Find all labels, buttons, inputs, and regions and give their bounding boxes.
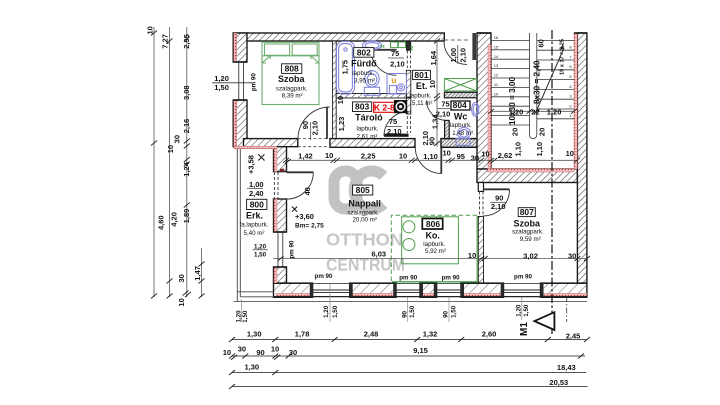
svg-text:1,20: 1,20 <box>214 74 229 83</box>
left chain line 4 <box>201 248 203 297</box>
svg-text:1,20: 1,20 <box>509 107 524 116</box>
807/Ko divider wall upper stub <box>478 183 483 192</box>
svg-text:u: u <box>391 75 396 85</box>
svg-text:20,00 m²: 20,00 m² <box>352 216 376 223</box>
stairwell bottom wall <box>477 169 577 183</box>
svg-text:75: 75 <box>441 99 449 108</box>
svg-text:30: 30 <box>568 252 576 261</box>
svg-text:1,64: 1,64 <box>429 50 438 65</box>
svg-text:2,45: 2,45 <box>566 332 581 341</box>
M1 section line <box>519 30 567 336</box>
svg-text:1,00: 1,00 <box>449 48 458 63</box>
svg-text:1,20: 1,20 <box>515 304 522 317</box>
terrace edge line <box>234 300 587 302</box>
DOOR DIM LABELS <box>247 45 506 211</box>
svg-text:Wc: Wc <box>454 111 468 121</box>
red strip stairwell bottom <box>488 169 575 172</box>
svg-text:Bm= 2,75: Bm= 2,75 <box>295 223 324 230</box>
svg-text:10: 10 <box>146 26 155 34</box>
svg-text:14: 14 <box>494 54 499 59</box>
svg-text:12: 12 <box>494 73 499 78</box>
BOTTOM WINDOW SIZE PAIRS <box>235 283 530 323</box>
window2 glass <box>396 290 420 292</box>
svg-text:1,32: 1,32 <box>423 329 438 338</box>
wc toilet <box>458 127 471 138</box>
INTERIOR DIM CHAIN y160 <box>283 149 580 164</box>
room 801 label <box>409 70 432 107</box>
door tároló (leaf + arc + dashes) <box>384 134 409 137</box>
red strip balcony wall upper <box>274 149 277 172</box>
red strip left wall upper <box>234 33 237 62</box>
svg-text:15: 15 <box>494 44 499 49</box>
svg-text:95: 95 <box>457 152 465 161</box>
svg-text:lapburk.: lapburk. <box>356 125 378 132</box>
red strip stairwell left wall <box>488 45 491 170</box>
svg-text:1,50: 1,50 <box>409 305 416 318</box>
door fürdő (leaf + arc + dashes) <box>366 49 397 51</box>
bottom exterior wall segments <box>274 283 313 297</box>
svg-text:90: 90 <box>443 310 450 317</box>
wall 802/803 divider <box>336 94 406 99</box>
svg-text:2,61 m²: 2,61 m² <box>357 134 378 141</box>
STAIR LABELS <box>488 35 577 157</box>
bottom wall window lines <box>274 283 587 285</box>
svg-text:pm 90: pm 90 <box>250 73 257 91</box>
DIMENSION CHAINS LEFT <box>154 27 202 297</box>
svg-text:6,03: 6,03 <box>371 250 386 259</box>
svg-text:805: 805 <box>356 185 370 195</box>
window1 glass <box>313 290 350 292</box>
window jambs bottom wall <box>310 283 544 296</box>
svg-text:800: 800 <box>250 200 264 210</box>
svg-text:5,11 m²: 5,11 m² <box>412 100 433 107</box>
svg-text:30: 30 <box>471 153 479 162</box>
svg-text:30: 30 <box>177 274 186 282</box>
window 808 left wall <box>233 62 247 100</box>
top exterior wall <box>233 33 444 41</box>
svg-text:801: 801 <box>414 70 428 80</box>
svg-text:1,75: 1,75 <box>341 60 350 75</box>
balcony/nappali wall mid <box>274 199 287 232</box>
pair balcony <box>241 299 243 322</box>
bottom chain 2 <box>232 355 585 357</box>
svg-text:22: 22 <box>531 107 539 116</box>
svg-text:2,10: 2,10 <box>436 110 451 119</box>
door 807 (leaf + arc + dashes) <box>479 191 481 216</box>
svg-text:16: 16 <box>494 35 499 40</box>
wall 808/802 divider <box>333 41 337 139</box>
stair step numbers left flight <box>494 35 499 96</box>
svg-text:7,27: 7,27 <box>160 34 169 49</box>
svg-text:1,10: 1,10 <box>535 142 544 157</box>
svg-text:+3,58: +3,58 <box>247 155 256 174</box>
svg-text:pm 90: pm 90 <box>399 275 417 282</box>
Wc left wall <box>445 120 450 138</box>
pair window2 <box>407 297 409 322</box>
GREEN FURNITURE <box>262 42 319 104</box>
STAIRS <box>491 33 574 139</box>
pair window1 <box>329 283 331 322</box>
wall band taroló/nappali <box>330 139 415 148</box>
svg-text:1,30: 1,30 <box>247 329 262 338</box>
svg-text:1,42: 1,42 <box>298 151 313 160</box>
svg-text:4,60: 4,60 <box>157 215 166 230</box>
svg-text:2,40: 2,40 <box>249 189 264 198</box>
svg-text:19 x 17 = 3,25: 19 x 17 = 3,25 <box>560 39 566 75</box>
svg-text:808: 808 <box>285 64 299 74</box>
left chain ticks <box>151 31 157 299</box>
left exterior wall lower (below window) <box>233 100 247 147</box>
svg-text:806: 806 <box>426 219 440 229</box>
svg-text:2: 2 <box>410 46 413 52</box>
left chain line 3 <box>186 27 188 297</box>
svg-text:1,50: 1,50 <box>332 305 339 318</box>
svg-text:+3,60: +3,60 <box>295 212 314 221</box>
svg-text:18,43: 18,43 <box>557 363 576 372</box>
svg-text:10: 10 <box>177 298 186 306</box>
svg-text:2,10: 2,10 <box>491 202 506 211</box>
svg-text:40: 40 <box>303 187 312 195</box>
svg-text:10: 10 <box>481 150 489 159</box>
svg-text:1,24: 1,24 <box>182 161 191 176</box>
red strip stairwell right wall <box>574 33 577 169</box>
svg-text:2,16: 2,16 <box>182 119 191 134</box>
svg-text:3,95 m²: 3,95 m² <box>354 78 375 85</box>
svg-text:pm 90: pm 90 <box>315 273 333 280</box>
INTERIOR DIM CHAIN y258.5 <box>273 250 590 261</box>
red corner under 808 wall <box>234 146 277 149</box>
room 808 label <box>276 64 308 100</box>
svg-text:1,20: 1,20 <box>254 243 267 250</box>
kitchen dashed boundary <box>391 215 479 281</box>
wall 803 right <box>406 98 410 114</box>
svg-text:75: 75 <box>389 117 397 126</box>
svg-text:pm 90: pm 90 <box>442 275 460 282</box>
bed 808 <box>262 42 319 104</box>
svg-text:2,10: 2,10 <box>390 60 405 69</box>
svg-text:1,50: 1,50 <box>242 310 249 323</box>
svg-text:1,89: 1,89 <box>182 209 191 224</box>
stair left flight treads <box>491 40 530 125</box>
svg-text:10: 10 <box>271 345 279 354</box>
stair right flight treads <box>537 40 574 118</box>
elevation nappali <box>292 207 297 212</box>
door nappali (leaf + arc) <box>440 147 442 173</box>
svg-text:Erk.: Erk. <box>246 211 263 221</box>
balcony/nappali wall upper <box>274 147 287 172</box>
svg-text:10: 10 <box>399 151 407 160</box>
BOTTOM DIMENSION CHAINS <box>223 329 590 389</box>
balcony/nappali wall lower <box>274 267 287 283</box>
svg-text:8,39 m²: 8,39 m² <box>282 92 303 99</box>
svg-text:M1: M1 <box>519 322 530 336</box>
svg-text:2,48: 2,48 <box>364 329 379 338</box>
svg-text:5,92 m²: 5,92 m² <box>425 248 446 255</box>
stair cut caps <box>477 32 587 34</box>
wc sink <box>472 103 479 117</box>
svg-text:10: 10 <box>223 348 231 357</box>
svg-text:10: 10 <box>166 145 175 153</box>
window balcony wall <box>274 232 287 267</box>
red band bottom wall segments <box>276 293 310 296</box>
WALLS <box>233 33 587 297</box>
svg-text:2,10: 2,10 <box>458 48 467 63</box>
svg-text:20: 20 <box>538 128 547 136</box>
svg-text:3,02: 3,02 <box>523 252 538 261</box>
svg-text:Fürdő: Fürdő <box>351 58 377 68</box>
svg-text:1,20: 1,20 <box>547 107 562 116</box>
svg-text:2,25: 2,25 <box>361 152 376 161</box>
room 806 label <box>422 219 446 256</box>
svg-text:2,95: 2,95 <box>182 34 191 49</box>
room 803 label + K 2-8 <box>353 102 396 141</box>
wall band under Wc / Et <box>441 139 479 148</box>
balcony window dimension labels <box>253 240 296 258</box>
svg-text:9,59 m²: 9,59 m² <box>520 236 541 243</box>
svg-text:9,15: 9,15 <box>413 346 428 355</box>
bottom chain 1 <box>232 339 587 341</box>
svg-text:szalagpark.: szalagpark. <box>512 229 544 236</box>
svg-text:1,50: 1,50 <box>254 251 267 258</box>
svg-text:10: 10 <box>566 149 574 158</box>
M1 triangle <box>534 312 554 330</box>
svg-text:Et.: Et. <box>416 81 428 91</box>
green dryer symbols fürdő <box>391 42 398 48</box>
svg-text:10: 10 <box>336 96 345 104</box>
svg-text:lapburk.: lapburk. <box>423 241 445 248</box>
svg-text:10: 10 <box>325 151 333 160</box>
door Wc (arc) <box>427 100 447 120</box>
807/Ko divider wall lower <box>478 217 483 284</box>
svg-text:10: 10 <box>494 91 499 96</box>
door 808 (opening dashes + leaf + arc) <box>298 138 330 140</box>
bathtub <box>337 42 355 95</box>
stair width dim 1,20/22/1,20 <box>491 110 574 112</box>
svg-text:1,10: 1,10 <box>514 142 523 157</box>
svg-text:20: 20 <box>511 128 520 136</box>
stair step numbers right flight <box>569 45 572 119</box>
svg-text:lapburk.: lapburk. <box>352 70 374 77</box>
room 804 label <box>450 100 473 137</box>
svg-text:803: 803 <box>355 102 369 112</box>
room 800 label <box>240 199 269 237</box>
svg-text:10: 10 <box>468 251 476 260</box>
svg-text:10x30 = 3,00: 10x30 = 3,00 <box>508 77 517 125</box>
svg-text:sz: sz <box>380 44 386 49</box>
svg-text:fa.lapburk.: fa.lapburk. <box>240 222 269 229</box>
svg-text:2,60: 2,60 <box>482 329 497 338</box>
svg-text:2,10: 2,10 <box>310 121 319 136</box>
svg-text:13: 13 <box>494 63 499 68</box>
washing machine <box>387 74 407 95</box>
balcony door threshold <box>280 169 284 172</box>
svg-text:Szoba: Szoba <box>514 218 541 228</box>
svg-text:Ko.: Ko. <box>425 230 440 240</box>
window3 glass <box>437 290 461 292</box>
svg-text:K 2-8: K 2-8 <box>374 102 395 112</box>
red strip left wall lower <box>234 100 237 148</box>
left chain line 1 <box>153 27 155 297</box>
svg-text:90: 90 <box>401 310 408 317</box>
WATERMARK <box>326 171 405 275</box>
svg-text:Szoba: Szoba <box>278 74 305 84</box>
svg-text:5,40 m²: 5,40 m² <box>244 230 265 237</box>
svg-text:20,53: 20,53 <box>549 378 568 387</box>
svg-text:1,10: 1,10 <box>423 152 438 161</box>
entry door reveal jamb <box>472 33 476 60</box>
svg-text:Tároló: Tároló <box>355 113 383 123</box>
left chain line 2 <box>169 27 171 297</box>
Wc top wall <box>444 92 478 98</box>
wall 802 right upper stub <box>406 41 410 50</box>
wall 802 right lower <box>406 70 410 97</box>
svg-text:10: 10 <box>443 149 451 158</box>
svg-text:30: 30 <box>238 345 246 354</box>
RED ACCENTS <box>234 33 587 296</box>
svg-text:807: 807 <box>520 207 534 217</box>
watermark OC monogram <box>334 171 384 209</box>
svg-text:30: 30 <box>289 348 297 357</box>
fürdő sink <box>362 41 381 50</box>
svg-text:4,20: 4,20 <box>169 212 178 227</box>
808 window dimension labels <box>212 73 257 93</box>
svg-text:Nappali: Nappali <box>348 198 381 208</box>
stairwell/807 right exterior wall <box>577 33 587 283</box>
svg-text:804: 804 <box>453 100 467 110</box>
balcony railing left <box>237 149 273 301</box>
svg-text:60: 60 <box>537 39 546 47</box>
svg-text:1,47: 1,47 <box>193 266 202 281</box>
svg-text:8x30 = 2,40: 8x30 = 2,40 <box>533 60 542 104</box>
stairwell left wall <box>477 33 491 169</box>
svg-text:1,30: 1,30 <box>244 362 259 371</box>
svg-text:CENTRUM: CENTRUM <box>326 255 405 275</box>
room 808 bottom wall <box>244 139 298 147</box>
fürdő toilet <box>365 71 379 87</box>
door apartment entry (dashes + arc) <box>444 39 470 41</box>
stair middle divider <box>529 33 531 135</box>
svg-text:1,20: 1,20 <box>323 305 330 318</box>
svg-text:90: 90 <box>428 137 437 145</box>
svg-text:1,50: 1,50 <box>214 83 229 92</box>
shaft symbol K 2-8 <box>394 100 407 113</box>
wardrobe X-box 801 <box>444 79 476 92</box>
ELEVATION MARKS <box>247 154 325 229</box>
svg-text:1,50: 1,50 <box>523 304 530 317</box>
WINDOWS <box>233 62 587 297</box>
FIXTURES <box>337 41 479 146</box>
room 802 label <box>351 47 377 84</box>
svg-text:1,00: 1,00 <box>249 180 264 189</box>
svg-text:lapburk.: lapburk. <box>450 122 472 129</box>
pair window4 <box>521 297 523 320</box>
svg-text:1,50: 1,50 <box>450 305 457 318</box>
BOTTOM WINDOW LABELS pm90 <box>315 273 533 282</box>
svg-text:2,62: 2,62 <box>498 151 513 160</box>
svg-text:90: 90 <box>256 348 264 357</box>
kitchen counter box <box>402 217 459 264</box>
svg-text:1,48 m²: 1,48 m² <box>452 130 473 137</box>
svg-text:1,78: 1,78 <box>295 329 310 338</box>
svg-text:pm 90: pm 90 <box>288 240 295 258</box>
left exterior wall upper (above window) <box>233 33 247 62</box>
svg-text:OTTHON: OTTHON <box>326 230 403 250</box>
svg-text:lapburk.: lapburk. <box>409 93 431 100</box>
svg-text:2,10: 2,10 <box>387 127 402 136</box>
svg-text:30: 30 <box>173 135 182 143</box>
room 805 label <box>347 185 380 223</box>
door balcony (leaf + arc + dashes) <box>273 172 275 199</box>
stair walking line arrow <box>536 48 565 113</box>
svg-text:802: 802 <box>357 47 371 57</box>
DOORS <box>274 40 509 217</box>
room 807 label <box>512 207 544 243</box>
svg-text:90: 90 <box>301 121 310 129</box>
VERTICAL DIM x437 (1,64 / 10 / 1,34) <box>428 39 440 148</box>
svg-text:75: 75 <box>391 49 399 58</box>
pair window3 <box>448 297 450 322</box>
svg-text:10: 10 <box>428 80 437 88</box>
red strip balcony wall mid <box>274 199 277 232</box>
kitchen circles <box>403 221 415 233</box>
svg-text:1,23: 1,23 <box>337 117 346 132</box>
ROOM LABELS <box>240 47 544 255</box>
svg-text:pm 90: pm 90 <box>514 274 532 281</box>
bottom chain 4 <box>232 386 588 388</box>
svg-text:3,08: 3,08 <box>182 85 191 100</box>
bottom chain 3 <box>232 372 586 374</box>
window4 glass <box>504 290 541 292</box>
red strip balcony wall lower <box>274 267 277 283</box>
